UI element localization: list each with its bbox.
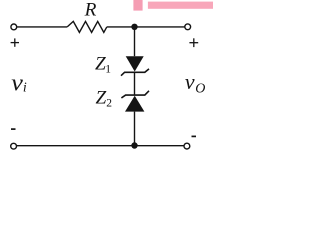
node top junction <box>131 24 137 30</box>
svg-text:v: v <box>185 69 195 94</box>
wire zener branch top <box>134 27 136 56</box>
plus left <box>11 38 19 46</box>
terminal bottom-right <box>184 143 190 149</box>
highlight mark (pink marker, horizontal bar) <box>148 2 213 9</box>
svg-text:1: 1 <box>105 63 111 75</box>
svg-text:O: O <box>195 82 205 97</box>
minus left <box>11 128 16 130</box>
node bottom junction <box>131 142 137 148</box>
wire top-right <box>107 26 185 28</box>
resistor R <box>67 21 107 32</box>
wire between zeners <box>134 72 136 95</box>
svg-text:R: R <box>84 0 97 21</box>
svg-text:2: 2 <box>106 98 112 110</box>
svg-text:i: i <box>23 80 27 95</box>
zener diode Z2 <box>121 91 149 112</box>
svg-text:Z: Z <box>96 88 107 109</box>
svg-text:v: v <box>11 71 23 97</box>
minus right <box>192 135 197 137</box>
wire zener branch bottom <box>134 112 136 146</box>
wire top-left <box>17 26 67 28</box>
highlight mark (pink marker, vertical block) <box>133 0 142 11</box>
terminal top-right <box>185 24 191 30</box>
zener diode Z1 <box>121 56 149 75</box>
terminal bottom-left <box>11 143 17 149</box>
wire bottom <box>17 145 185 147</box>
terminal top-left <box>11 24 17 30</box>
plus right <box>189 38 198 47</box>
